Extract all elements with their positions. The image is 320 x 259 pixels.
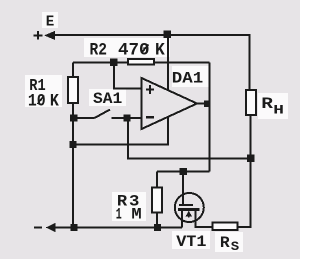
slashed zero of 10 [38,96,45,105]
node bottom rail / R1 chain [70,224,77,231]
wire op-amp output stub [197,103,210,105]
node bottom rail / R3 bottom [154,224,161,231]
wire bottom rail [55,227,182,229]
svg-text:R: R [261,95,273,113]
wire R1 top leg [72,63,74,77]
wire R2 row left [73,62,127,64]
wire R3 top leg [156,172,158,187]
resistor R3 body [152,188,162,213]
svg-text:K: K [155,41,166,61]
wire RH bottom to Rs right [239,116,251,227]
slashed zero of 470 [142,45,149,54]
svg-text:S: S [231,239,240,254]
svg-text:SA1: SA1 [93,90,122,108]
svg-text:10: 10 [28,92,46,112]
op-amp minus input mark [146,116,154,119]
wire right drop to RH [249,34,251,89]
resistor Rs body [213,222,238,230]
op-amp DA1 triangle [142,78,198,129]
node VT1 gate / R3 top [180,168,187,175]
wire Rs left to VT1 drain [196,210,213,227]
node R1 bottom / SA1 left [70,114,77,121]
wire inverting input down and right to RH/Rs node [128,118,251,158]
wire SA1 left [73,117,95,119]
svg-text:K: K [50,92,60,112]
switch SA1 arm [95,110,111,119]
wire feedback R2 right to output [155,63,210,172]
wire top rail E+ [55,34,250,36]
wire gate lead [182,172,184,205]
resistor R1 body [68,77,78,103]
node E+ rail / DA1 supply [164,31,171,38]
svg-text:R2: R2 [90,41,108,61]
terminal minus sign bottom left [34,226,42,228]
wire DA1 V+ lead [167,35,169,91]
svg-text:H: H [273,103,284,118]
terminal arrow bottom left [46,223,56,232]
transistor VT1 channel bar [178,208,200,211]
wire VT1 source leg [181,210,183,228]
transistor VT1 gate bar [179,204,193,206]
resistor R2 body [128,59,154,64]
wire R3 bottom leg [156,214,158,228]
node SA1 right / inverting input [123,114,130,121]
svg-text:470: 470 [118,41,150,61]
label background boxes [25,12,288,252]
wire DA1 V- lead [73,117,168,145]
node R2 left / non-inverting tap [110,59,117,66]
svg-text:M: M [131,205,141,223]
node RH bottom / sense [247,155,254,162]
op-amp plus input mark [146,85,154,94]
transistor VT1 circle [175,193,204,222]
wire SA1 right to inverting input [112,117,142,119]
terminal plus sign top left [33,31,42,40]
node DA1 V- rail tap [69,141,76,148]
wire R1 chain down to bottom rail [72,104,74,228]
wire output down to gate node row [157,171,210,173]
svg-text:R: R [220,234,230,252]
svg-text:DA1: DA1 [172,70,203,88]
node DA1 output [204,100,211,107]
wire non-inverting tap [114,63,142,89]
svg-text:1: 1 [116,205,122,223]
terminal arrow top left [44,31,55,40]
svg-text:E: E [46,15,55,31]
resistor RH body [246,90,256,115]
transistor VT1 substrate arrow [188,214,190,218]
svg-text:VT1: VT1 [176,233,206,251]
